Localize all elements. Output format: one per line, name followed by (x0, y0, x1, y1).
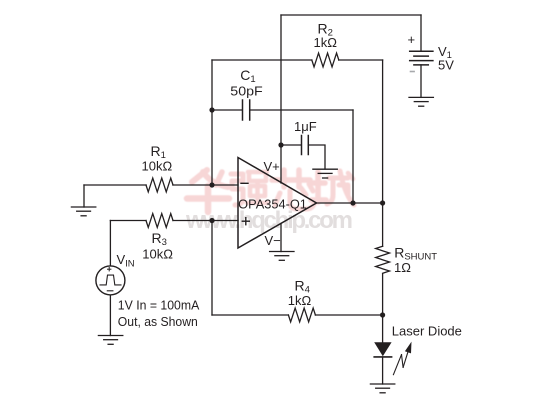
watermark char hua (187, 170, 229, 212)
VIN internal polarity - (107, 290, 113, 292)
VIN internal polarity + (108, 268, 111, 271)
wire: R1 right segment to inverting input (173, 184, 238, 186)
ground below 1uF capacitor (313, 169, 337, 178)
battery negative sign (410, 71, 415, 73)
wire: C1 row left segment (212, 109, 242, 111)
svg-text:V+: V+ (264, 159, 280, 174)
ground below R1 (71, 207, 95, 216)
op-amp inverting input sign - (241, 182, 248, 184)
watermark char qiang (231, 172, 268, 205)
resistor R3 (146, 214, 173, 228)
junction: R1 / inverting input (209, 182, 214, 187)
svg-text:1kΩ: 1kΩ (288, 293, 312, 308)
ground below op-amp V- pin (270, 252, 294, 261)
wire: 1uF row from V+ vertical (281, 144, 301, 146)
wire: op-amp V- pin to ground (280, 224, 282, 252)
wire: VIN bottom lead (109, 295, 111, 336)
svg-text:R3: R3 (152, 230, 167, 248)
op-amp U1 OPA354-Q1 triangle (238, 158, 317, 249)
svg-text:1V In = 100mA: 1V In = 100mA (118, 298, 200, 313)
svg-text:V−: V− (265, 233, 281, 248)
junction: output / right vertical (380, 200, 385, 205)
svg-text:50pF: 50pF (230, 84, 262, 99)
wire: R4 right segment to shunt node (315, 314, 382, 316)
svg-text:OPA354-Q1: OPA354-Q1 (238, 197, 307, 211)
junction: R3 / non-inverting input (209, 218, 214, 223)
laser diode symbol (374, 342, 391, 356)
wire: R2 feedback row left segment (212, 59, 312, 61)
wire: R1 ground stub (83, 185, 85, 207)
wire: battery top lead (420, 15, 422, 51)
ground below battery V1 (409, 97, 433, 106)
junction: C1 / inverting node (209, 107, 214, 112)
watermark char xin (272, 170, 315, 209)
wire: C1 row right segment (250, 109, 353, 111)
svg-text:VIN: VIN (117, 252, 135, 270)
wire: C1 right vertical down to output node (352, 110, 354, 203)
watermark char cheng (311, 171, 354, 205)
source VIN circle (96, 266, 125, 295)
battery V1 plates (410, 51, 433, 65)
wire: VIN top lead (109, 221, 111, 267)
wire: R1 left segment from ground (84, 184, 146, 186)
svg-text:5V: 5V (438, 58, 454, 73)
capacitor C1 (243, 100, 250, 120)
svg-text:C1: C1 (240, 67, 255, 85)
resistor R2 (312, 53, 339, 67)
ground below laser diode (370, 384, 394, 393)
svg-text:10kΩ: 10kΩ (142, 247, 173, 262)
wire: right feedback vertical from R2 down to RSHUNT (382, 60, 384, 246)
op-amp non-inverting input sign + (242, 218, 249, 225)
svg-text:+: + (408, 32, 416, 47)
resistor R1 (146, 178, 173, 192)
wire: battery bottom lead (420, 65, 422, 98)
VIN pulse waveform symbol (100, 275, 121, 285)
junction: 1uF on V+ rail (278, 142, 283, 147)
wire: R3 right segment to non-inverting input (173, 220, 238, 222)
wire: R3 left segment from VIN (110, 220, 146, 222)
svg-text:1kΩ: 1kΩ (314, 35, 338, 50)
wire: R4 row left segment (212, 314, 288, 316)
junction: R4 / shunt node (380, 312, 385, 317)
wire: non-inverting node vertical down to R4 row (211, 221, 213, 316)
svg-text:10kΩ: 10kΩ (142, 158, 173, 173)
wire: inverting node vertical from R2 row down to inverting input row (211, 60, 213, 185)
ground below VIN source (98, 336, 122, 345)
wire: R2 right segment to right vertical (339, 59, 383, 61)
laser diode emission arrow (393, 352, 407, 374)
svg-text:Laser Diode: Laser Diode (392, 324, 462, 339)
wire: laser diode cathode to ground (382, 357, 384, 384)
wire: 1uF right segment and drop to ground (309, 145, 326, 169)
wire: top supply rail from V+ branch to battery (281, 14, 421, 16)
svg-text:1Ω: 1Ω (394, 260, 411, 275)
resistor R4 (288, 308, 315, 322)
watermark chinese characters (drawn strokes, under circuit) (187, 170, 354, 212)
wire: V+ supply vertical down to op-amp V+ pin (280, 15, 282, 183)
capacitor C 1uF bypass (302, 136, 309, 155)
svg-text:1μF: 1μF (294, 119, 317, 134)
junction: C1 vertical on output (350, 200, 355, 205)
wire: shunt node down to laser diode (382, 274, 384, 343)
svg-text:Out, as Shown: Out, as Shown (118, 314, 198, 329)
wire: op-amp output to right vertical (317, 202, 383, 204)
resistor RSHUNT (376, 246, 390, 273)
